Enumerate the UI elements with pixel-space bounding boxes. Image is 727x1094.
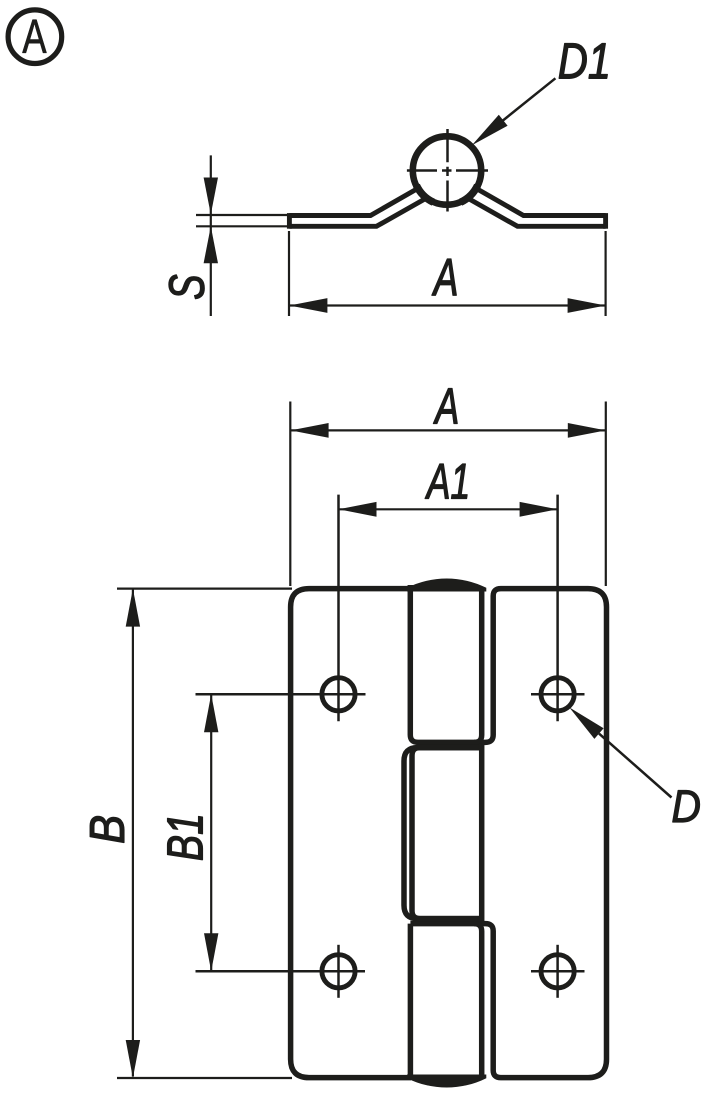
knuckle junction fillets xyxy=(416,185,477,202)
dimension A1 line xyxy=(339,508,558,510)
hole top-right xyxy=(541,678,574,711)
left plate outline xyxy=(291,589,411,1078)
dimension S extension lines xyxy=(196,215,290,226)
label D1 xyxy=(559,44,607,79)
leader D1 xyxy=(483,78,555,136)
dimension B extension lines xyxy=(117,589,292,1078)
dimension A (bottom) arrows xyxy=(291,423,606,438)
view label letter A xyxy=(22,20,46,53)
hole bottom-right xyxy=(541,955,574,988)
label B1 xyxy=(168,816,203,859)
top knuckle inner right edge xyxy=(474,590,482,742)
dimension B line xyxy=(132,589,134,1077)
leader D arrowhead xyxy=(569,707,603,739)
label A (top view) xyxy=(432,259,457,295)
knuckle circle D1 xyxy=(413,136,481,204)
middle knuckle inner left edge xyxy=(412,748,482,919)
dimension A (bottom) extension lines xyxy=(290,402,606,587)
middle knuckle outer outline xyxy=(404,748,482,919)
dimension A1 arrows xyxy=(339,502,558,517)
bottom knuckle inner right edge xyxy=(474,924,482,1079)
top knuckle bump xyxy=(407,578,486,591)
leader D1 arrowhead xyxy=(472,115,508,146)
bottom knuckle bump xyxy=(407,1075,486,1088)
bottom knuckle left edge xyxy=(408,924,414,1080)
dimension B arrows xyxy=(126,589,140,1078)
label A1 xyxy=(425,464,467,498)
dimension S line xyxy=(210,155,212,316)
middle knuckle right edge xyxy=(479,744,485,922)
sheet profile left leaf xyxy=(289,187,427,229)
dimension B1 line xyxy=(210,694,212,971)
leader D xyxy=(599,734,672,798)
hole centerlines / extension lines xyxy=(196,495,585,998)
dimension A (top view) arrows xyxy=(289,298,605,313)
sheet profile right leaf xyxy=(467,187,606,229)
right plate and top knuckle outline xyxy=(410,585,606,1078)
label S xyxy=(169,275,204,299)
label B xyxy=(90,816,124,842)
label A (bottom view) xyxy=(433,389,457,424)
centerline vertical of knuckle xyxy=(446,129,449,212)
dimension A (top view) extension lines xyxy=(289,231,606,316)
hole bottom-left xyxy=(322,955,355,988)
hole top-left xyxy=(322,678,355,711)
label D xyxy=(673,791,700,822)
dimension A (bottom) line xyxy=(291,429,606,431)
dimension A (top view) line xyxy=(289,304,605,306)
view label circled A xyxy=(8,10,62,64)
dimension S arrows xyxy=(204,178,218,264)
centerline horizontal of knuckle xyxy=(407,169,488,172)
dimension B1 arrows xyxy=(204,694,218,971)
